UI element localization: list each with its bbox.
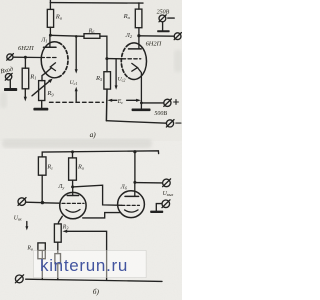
svg-text:Л2: Л2 [125,33,132,39]
svg-text:Uс1: Uс1 [70,80,78,86]
wire: Rb to grid-2 corner [100,36,107,58]
wire: dashed reference line [50,101,104,103]
svg-text:Rа: Rа [77,163,84,170]
tube A (Lu) envelope [60,192,86,218]
wire: bottom rail (a) [106,121,166,124]
resistor R1 [22,68,29,89]
svg-text:R3: R3 [62,224,69,230]
wire: to plus terminal [141,102,163,104]
terminal: -500V [166,120,174,127]
wire: 250V terminal stem [162,22,164,30]
wire: Ra1 top lead overshoot [49,0,51,9]
wire: tube A cathode lead [58,216,62,224]
watermark box [34,250,147,277]
wire: rail to anode B [134,152,136,183]
tube B grid (dashed) [122,204,140,206]
scan grain noise [0,0,182,300]
tube U2 anode plate [129,48,142,50]
terminal: input (b) [18,198,26,206]
label minus sign [176,122,181,124]
wire: cathode link A-B [83,213,120,218]
svg-text:Лб: Лб [120,184,128,190]
svg-text:б): б) [93,287,100,296]
wire: Uc1 arrow lower [75,87,78,102]
terminal: input lower [5,73,12,80]
tube U1 anode plate [44,46,57,48]
ground: output T-bar [150,211,163,213]
wire: Ec double arrow [107,99,140,102]
resistor Ra2 [135,9,142,28]
terminal: output lower (b) [162,200,170,208]
resistor R3 (potentiometer) [54,224,61,242]
node: anode A junction [71,185,74,188]
smudge left edge [0,92,7,108]
wire: Rv bottom lead [41,259,43,280]
node: grid-1 / R1 junction [24,56,27,59]
wire: Ra2 bottom / tube U2 anode lead [138,28,140,49]
ground: input chassis bar [4,88,17,91]
wire: input to grid junction (b) [26,201,44,204]
ground: cathode T-bar [132,109,151,112]
tube U1 envelope dashed arc [59,43,68,77]
svg-text:Uвых: Uвых [163,191,174,197]
tube U2 (L2 6N2P) envelope solid arc [129,43,147,80]
wire: Rab bottom lead [72,180,74,187]
wire: Rg bottom lead [41,175,43,202]
wire: coupling anode A to grid B [73,185,122,205]
resistor R4 (lower divider) [55,254,61,264]
smudge right edge [174,50,182,72]
tube B anode lead [134,182,136,196]
node: anode-1 junction [49,34,52,37]
ground: 250V T-bar [157,30,169,32]
resistor Rab (b) [69,158,77,180]
tube U1 (L1 6N2P) envelope solid arc [41,42,59,78]
terminal: common (b) [15,275,23,283]
svg-text:Лу: Лу [57,184,64,190]
wire: grid-2 lead [107,58,122,60]
tube A anode lead [72,187,74,196]
tube U2 envelope dashed arc [121,45,128,78]
wire: Uc1 arrow upper [75,36,78,73]
wire: tube U1 cathode lead [42,68,52,81]
svg-text:а): а) [90,130,97,139]
wire: Uc2 arrow [115,59,118,90]
svg-text:Л1: Л1 [40,38,47,44]
svg-text:kinterun.ru: kinterun.ru [40,256,128,275]
wire: R5 top lead [106,59,108,72]
node: grid-2 junction [105,57,108,60]
ghost wires under watermark [38,250,107,277]
node: output junction (a) [137,34,140,37]
tube U1 cathode [50,63,55,71]
wire: top supply rail (a) [50,2,143,5]
ground: R9 chassis bar [33,108,48,111]
label plus sign [174,100,179,105]
terminal: output upper (b) [163,179,171,187]
wire: input grid wire (a) [13,56,41,58]
tube B cathode arc [125,210,138,212]
upper-half scan wash [0,0,182,141]
node: cathode/plus junction [140,102,143,105]
tube A anode plate [67,195,78,197]
tube U1 anode lead [49,36,51,47]
tube U2 cathode [132,63,138,71]
node: rail junction above tube B [133,150,136,153]
wire: R3 slider arrow to bottom rail [62,230,106,280]
node: output junction (b) [133,181,136,184]
tube A grid (dashed) [62,202,84,204]
svg-text:Rб: Rб [88,28,96,34]
terminal: +500V [164,99,172,106]
wire: output (a) [139,35,174,37]
svg-text:6Н2П: 6Н2П [18,45,34,52]
wire: Uvx arrow [25,222,28,231]
node: Rab top junction [71,150,74,153]
resistor Rb (coupling, horizontal) [84,34,100,39]
wire: output (b) [135,182,163,184]
terminal: +250V supply [159,15,174,22]
tube U1 grid (dashed) [41,57,57,59]
wire: Ra2 top lead [138,3,140,9]
wire: divider bottom lead [57,264,59,280]
svg-text:Ес: Ес [117,99,124,105]
wire: lower output terminal to ground [156,204,162,211]
wire: R3 bottom lead [57,242,59,253]
wire: anode-1 to Rb [50,35,84,36]
node: grid junction (b) [41,201,44,204]
svg-text:500В: 500В [154,111,167,117]
resistor R5 [104,72,111,89]
svg-text:Uс2: Uс2 [118,77,126,83]
wire: grid wire tube A [44,202,60,204]
terminal: output (a) [174,33,181,40]
tube B anode plate [125,195,139,197]
resistor Rv [38,243,45,259]
terminal: input upper [7,54,14,61]
wire: R9 bottom lead [41,101,43,109]
wire: bottom rail (b) [26,279,162,281]
wire: tube U2 cathode lead down [138,68,142,109]
wire: top supply rail (b) [42,151,158,157]
resistor R9 (variable) [32,79,53,101]
svg-text:Rг: Rг [46,164,53,171]
scan paper background [0,0,182,300]
tube U2 grid (dashed) [122,58,141,60]
tube B (Lb) envelope [118,191,145,218]
wire: R5 bottom lead down to bottom rail corner [105,89,108,121]
node: Uc1 arrow tap [75,35,78,38]
wire: Ra1 bottom lead [49,27,51,36]
wire: lower input terminal to ground [9,80,11,88]
svg-text:Uвх: Uвх [14,216,22,222]
resistor Rg (b) [38,157,46,175]
svg-text:6Н2П: 6Н2П [146,40,162,47]
wire: Rab top lead [72,152,74,158]
resistor Ra1 [47,9,53,27]
tube A cathode arc [66,210,80,213]
gray smudge band between circuits [2,139,152,148]
wire: R1 bias lead with arrow [24,89,27,102]
svg-text:Rв: Rв [26,246,33,252]
wire: R1 top lead [24,57,26,68]
